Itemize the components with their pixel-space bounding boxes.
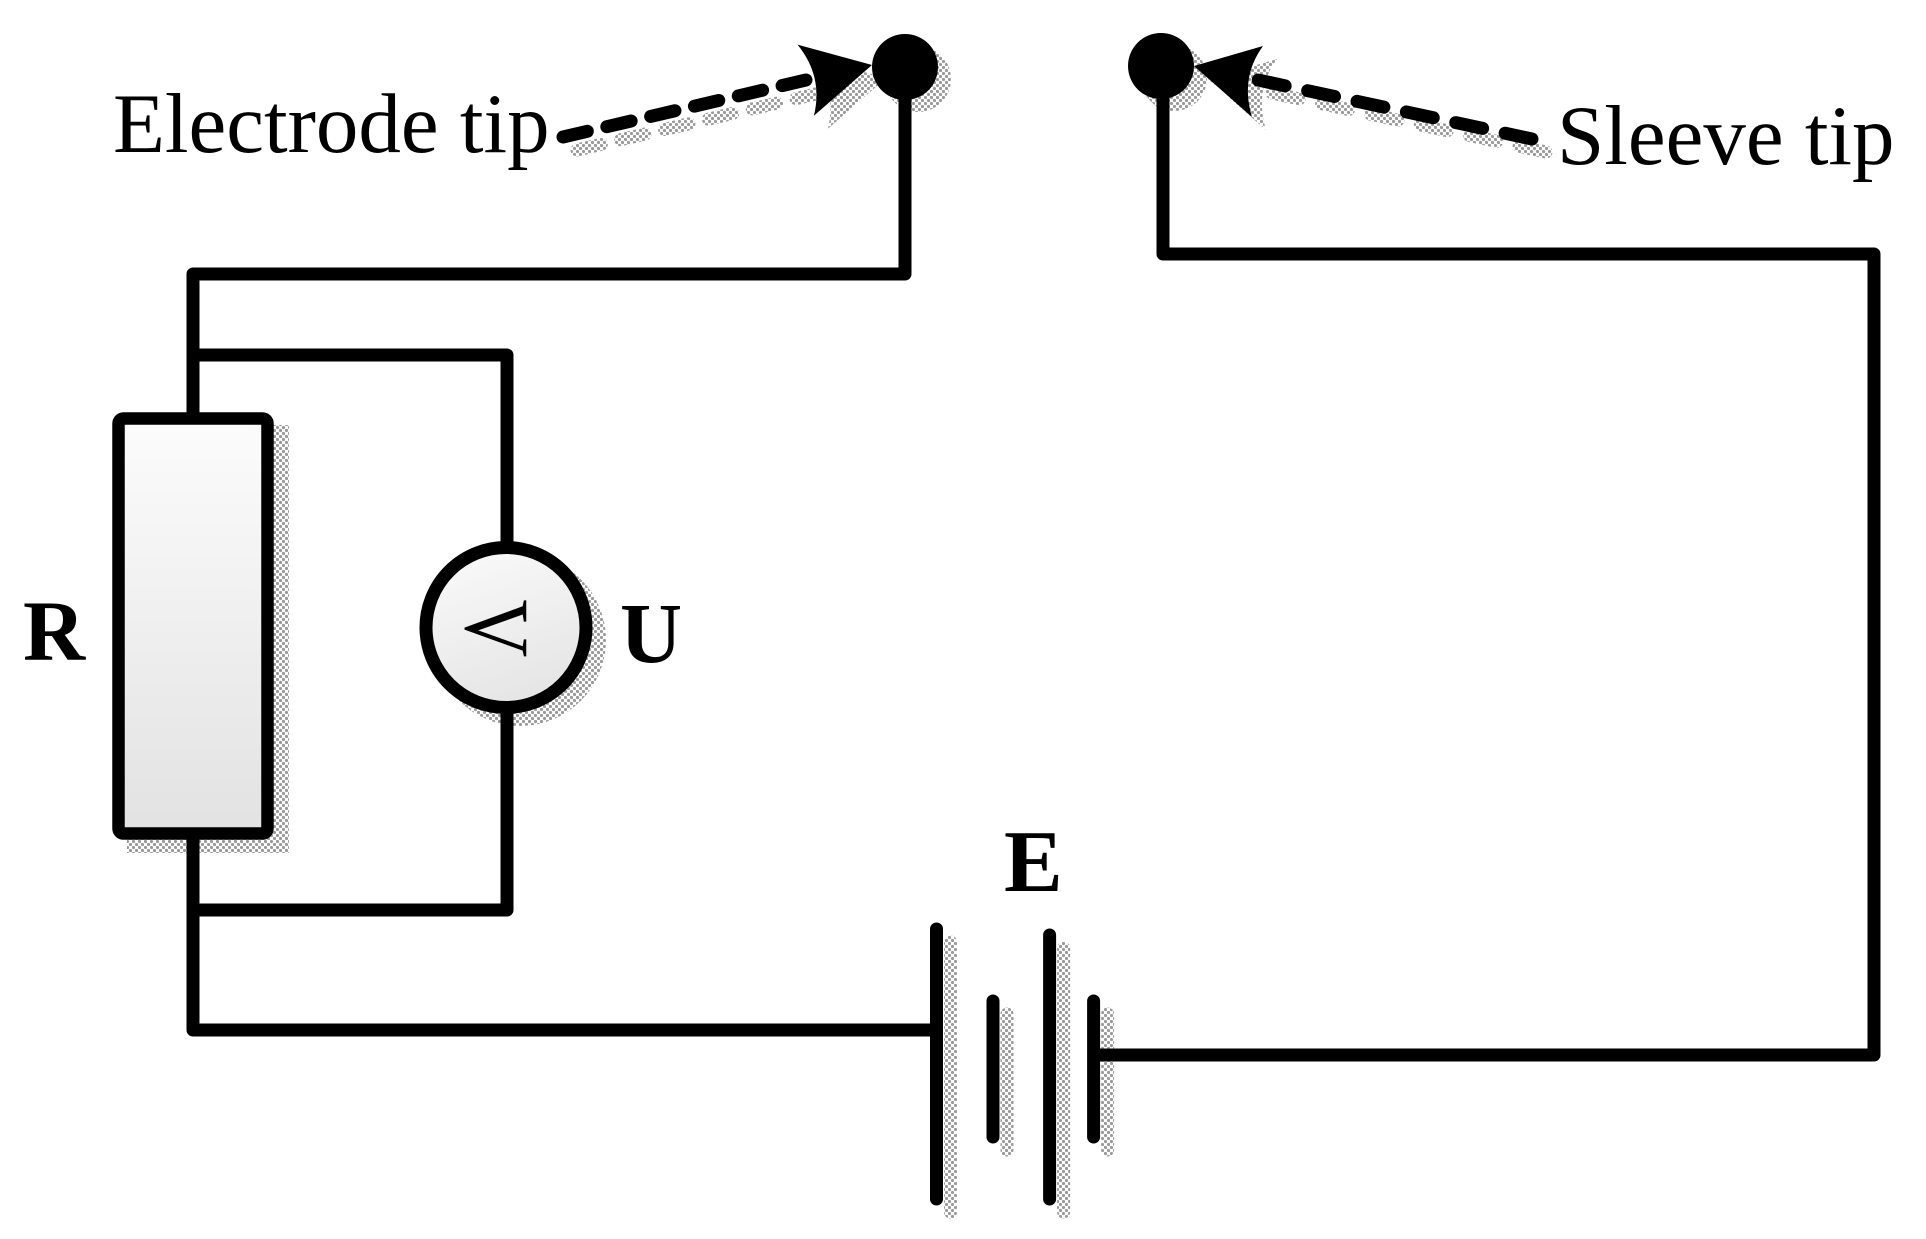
battery plate shadows: [951, 942, 1108, 1212]
electrode arrowhead: [798, 45, 873, 116]
voltmeter U: [426, 548, 586, 708]
resistor R shadow: [127, 425, 289, 853]
electrode dashed leader: [563, 80, 806, 137]
sleeve dashed leader shadow: [1272, 93, 1546, 152]
node electrode tip: [872, 34, 938, 100]
svg-text:V: V: [446, 600, 549, 658]
node electrode tip shadow: [885, 46, 951, 112]
svg-text:R: R: [23, 583, 86, 679]
electrode dashed leader shadow: [577, 93, 820, 150]
resistor R: [119, 419, 268, 834]
electrode arrowhead shadow: [812, 58, 887, 129]
svg-text:Electrode tip: Electrode tip: [113, 77, 550, 171]
svg-text:E: E: [1004, 814, 1063, 911]
wire resistor bottom to battery: [193, 834, 934, 1030]
node sleeve tip: [1128, 33, 1194, 99]
voltmeter U shadow: [434, 554, 606, 726]
battery long plate 2: [1043, 935, 1056, 1199]
sleeve arrowhead: [1194, 46, 1263, 117]
battery long plate 1: [930, 929, 943, 1199]
wire voltmeter bottom branch: [187, 700, 507, 910]
sleeve dashed leader: [1258, 80, 1532, 139]
battery short plate 2: [1087, 1001, 1100, 1137]
sleeve arrowhead shadow: [1208, 59, 1277, 130]
wire voltmeter top branch: [187, 355, 507, 560]
battery short plate 1: [987, 1001, 1000, 1137]
node sleeve tip shadow: [1141, 45, 1207, 111]
svg-text:Sleeve tip: Sleeve tip: [1557, 89, 1895, 183]
wire battery right to sleeve node: [1092, 66, 1874, 1055]
wire electrode node to left corner down to resistor: [193, 67, 905, 418]
svg-text:U: U: [620, 585, 682, 681]
